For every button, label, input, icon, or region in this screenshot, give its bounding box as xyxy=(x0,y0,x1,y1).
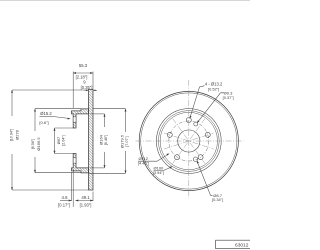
svg-text:[0.34"]: [0.34"] xyxy=(212,197,223,202)
bolt circle (dashed) xyxy=(169,121,209,161)
outer circle xyxy=(139,91,238,190)
dim 55.3 top xyxy=(73,72,93,109)
faint top border artifact xyxy=(0,0,250,2)
dim O166.5 bracket left xyxy=(35,109,81,173)
title block xyxy=(216,240,251,248)
svg-text:9: 9 xyxy=(83,80,86,85)
dim O278 bracket left xyxy=(12,90,89,190)
svg-text:[3.94"]: [3.94"] xyxy=(153,170,164,175)
center bore xyxy=(178,130,200,152)
svg-text:[0.6"]: [0.6"] xyxy=(39,120,48,125)
dim O164 bracket right xyxy=(90,114,105,168)
svg-text:[6.56"]: [6.56"] xyxy=(31,139,35,150)
svg-text:Ø166.5: Ø166.5 xyxy=(36,137,41,151)
svg-text:55.3: 55.3 xyxy=(79,63,88,68)
svg-text:[6.46"]: [6.46"] xyxy=(104,135,108,146)
svg-text:[0.52"]: [0.52"] xyxy=(208,86,219,91)
lug holes 5x xyxy=(167,118,210,162)
disc friction ring (hatched bar) xyxy=(89,89,94,190)
svg-text:[1.93"]: [1.93"] xyxy=(80,203,92,208)
pin hole xyxy=(194,122,198,126)
svg-text:[0.37"]: [0.37"] xyxy=(223,95,234,100)
centerlines xyxy=(136,80,244,198)
hat ring outer xyxy=(156,109,221,174)
lug hole bottom (in flange) xyxy=(73,158,76,163)
svg-text:Ø67: Ø67 xyxy=(56,136,61,144)
svg-text:63012: 63012 xyxy=(235,243,249,249)
svg-text:[2.64"]: [2.64"] xyxy=(62,135,66,146)
svg-text:49.1: 49.1 xyxy=(81,195,90,200)
svg-text:Ø179.5: Ø179.5 xyxy=(119,134,124,148)
hat ring inner xyxy=(160,112,217,169)
dim O67 bore bracket xyxy=(55,128,74,154)
hat top half (hatched) xyxy=(72,109,89,128)
hat ring mid xyxy=(158,111,219,172)
svg-text:[0.35"]: [0.35"] xyxy=(81,85,93,90)
svg-text:Ø15.2: Ø15.2 xyxy=(40,111,52,116)
lug hole top (in flange) xyxy=(73,117,76,122)
hat bottom half (hatched) xyxy=(72,154,89,173)
svg-text:4.6: 4.6 xyxy=(62,195,69,200)
bottom dim 4.6 xyxy=(60,169,93,207)
svg-text:[10.94"]: [10.94"] xyxy=(10,129,14,142)
hole O8.7 xyxy=(193,157,197,161)
svg-text:[7.07"]: [7.07"] xyxy=(125,136,129,147)
svg-text:Ø164: Ø164 xyxy=(98,134,103,145)
right side ext lines xyxy=(89,109,126,174)
outer chamfer circle xyxy=(141,93,237,189)
svg-text:Ø278: Ø278 xyxy=(15,129,20,140)
svg-text:[0.17"]: [0.17"] xyxy=(58,203,70,208)
dim O179.5 bracket right xyxy=(125,109,127,174)
